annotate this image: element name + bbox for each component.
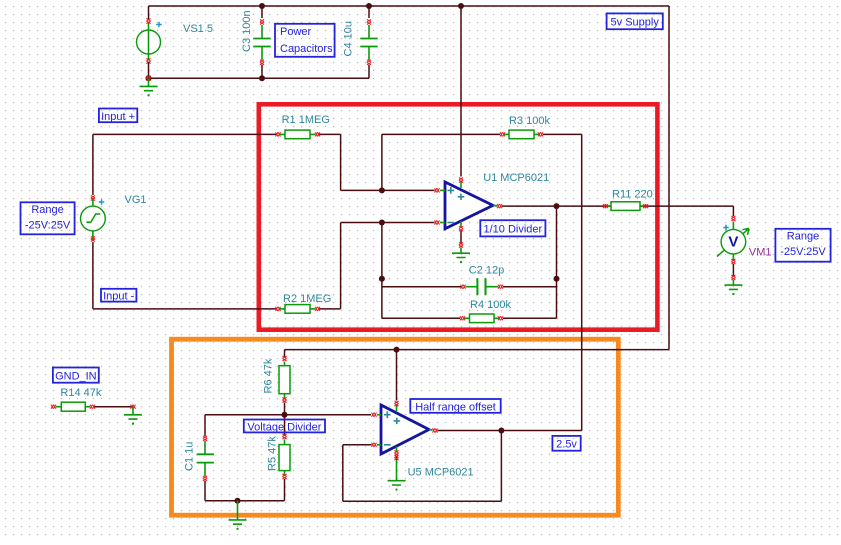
label R14 47k — [60, 387, 101, 399]
node +input junction — [379, 187, 385, 193]
svg-text:C2 12p: C2 12p — [469, 264, 504, 276]
red highlight box (difference amplifier) — [259, 104, 658, 329]
svg-text:U5 MCP6021: U5 MCP6021 — [408, 466, 474, 478]
wire VG1 top vertical — [92, 134, 94, 195]
svg-text:1/10 Divider: 1/10 Divider — [483, 224, 542, 236]
wire R14 to ground — [95, 405, 136, 415]
svg-text:Input +: Input + — [101, 111, 135, 123]
resistor R14 — [51, 402, 95, 411]
ground below VS1 — [140, 78, 158, 96]
svg-text:-25V:25V: -25V:25V — [25, 220, 71, 232]
svg-text:R5 47k: R5 47k — [267, 436, 279, 471]
label R11 220 — [612, 188, 653, 200]
ground below VM1 — [724, 285, 742, 295]
generator VG1 — [81, 196, 106, 242]
wire VG1 bottom vertical — [92, 242, 94, 309]
node divider midpoint — [282, 412, 288, 418]
node VS1 / bottom rail — [146, 75, 152, 81]
label C1 1u — [184, 442, 196, 471]
wire output feedback drop — [556, 206, 558, 318]
capacitor C4 — [360, 6, 377, 78]
wire R1 to U1 +input — [320, 134, 435, 190]
svg-text:R14 47k: R14 47k — [60, 387, 101, 399]
svg-text:C4 10u: C4 10u — [343, 21, 355, 56]
label U1 MCP6021 — [483, 172, 549, 184]
node top rail / C3 — [259, 3, 265, 9]
wire 5V rail right drop — [668, 6, 670, 350]
svg-text:Capacitors: Capacitors — [280, 43, 333, 55]
node bottom rail / ground — [235, 498, 241, 504]
op-amp U1 — [435, 178, 503, 232]
node 5V rail / U5 power branch — [394, 347, 400, 353]
label Half range offset — [410, 399, 500, 413]
svg-text:R1 1MEG: R1 1MEG — [282, 114, 330, 126]
wire divider mid to U5 +input — [285, 414, 372, 416]
wire +input branch up to R3 — [382, 134, 500, 190]
label Range -25V:25V (VM1) — [775, 229, 830, 262]
wire 5V rail bottom horizontal — [285, 349, 670, 351]
wire Input+ horizontal — [93, 133, 276, 135]
label Range -25V:25V (VG1) — [21, 202, 75, 234]
svg-text:C3 100n: C3 100n — [241, 10, 253, 52]
node output / C2 branch — [554, 276, 560, 282]
label 5v Supply — [607, 13, 663, 29]
label R4 100k — [470, 299, 511, 311]
node top rail / C4 — [366, 3, 372, 9]
svg-text:VS1 5: VS1 5 — [183, 23, 213, 35]
label C2 12p — [469, 264, 504, 276]
svg-text:R2 1MEG: R2 1MEG — [283, 293, 331, 305]
svg-text:R3 100k: R3 100k — [509, 115, 550, 127]
svg-text:R4 100k: R4 100k — [470, 299, 511, 311]
wire VS1 to ground rail — [148, 62, 150, 78]
ground below U1 — [452, 253, 470, 263]
label 1/10 Divider — [480, 220, 545, 236]
op-amp U5 — [372, 401, 438, 456]
svg-text:Range: Range — [787, 231, 819, 243]
wire U1 output — [502, 205, 733, 207]
svg-text:Power: Power — [280, 26, 312, 38]
svg-text:-25V:25V: -25V:25V — [780, 246, 826, 258]
label Power Capacitors — [275, 24, 335, 57]
wire U5 power pin — [396, 350, 398, 401]
capacitor C3 — [253, 6, 270, 78]
label Input + — [99, 109, 137, 123]
ground at R14 — [124, 415, 142, 425]
svg-text:GND_IN: GND_IN — [55, 371, 97, 383]
label C3 100n — [241, 10, 253, 52]
voltage source VS1 — [137, 6, 162, 64]
node output junction — [554, 203, 560, 209]
wire U1 ground pin — [459, 231, 463, 253]
node -input / C2 branch — [379, 276, 385, 282]
label VG1 — [125, 194, 147, 206]
svg-text:Range: Range — [31, 204, 63, 216]
svg-text:V: V — [728, 234, 738, 251]
svg-text:R6 47k: R6 47k — [263, 358, 275, 393]
node U5 output / feedback — [498, 428, 504, 434]
resistor R11 — [603, 202, 648, 211]
wire divider mid to C1 column — [205, 414, 285, 416]
label R3 100k — [509, 115, 550, 127]
wire U5 feedback loop — [343, 431, 502, 502]
capacitor C1 — [197, 415, 214, 501]
label R6 47k — [263, 358, 275, 393]
wire C2 row left — [382, 286, 461, 288]
wire U5 ground stem — [394, 455, 398, 481]
wire C2 row right — [503, 286, 557, 288]
resistor R5 — [279, 415, 290, 501]
node top rail / U1 power branch — [458, 3, 464, 9]
label VS1 5 — [183, 23, 213, 35]
svg-text:Input -: Input - — [103, 291, 135, 303]
wire Input- horizontal — [93, 308, 276, 310]
wire U1 power pin — [460, 6, 462, 177]
resistor R3 — [500, 130, 543, 139]
resistor R1 — [276, 130, 321, 139]
ground below U5 — [388, 481, 406, 491]
label Input - — [101, 289, 136, 303]
resistor R2 — [276, 305, 321, 314]
svg-text:VG1: VG1 — [125, 194, 147, 206]
wire output to voltmeter — [732, 206, 734, 216]
label U5 MCP6021 — [408, 466, 474, 478]
svg-text:C1 1u: C1 1u — [184, 442, 196, 471]
label VM1 — [749, 246, 772, 258]
label GND_IN — [53, 368, 99, 383]
wire 5V top rail — [149, 5, 670, 7]
label Voltage Divider — [244, 420, 325, 434]
capacitor C2 — [461, 278, 504, 295]
wire U5 output to 2.5v column — [438, 430, 582, 432]
resistor R4 — [460, 314, 503, 323]
svg-text:VM1: VM1 — [749, 246, 772, 258]
voltmeter VM1 — [717, 216, 749, 285]
svg-text:U1 MCP6021: U1 MCP6021 — [483, 172, 549, 184]
ground below divider — [229, 520, 247, 530]
svg-text:Voltage Divider: Voltage Divider — [247, 421, 321, 433]
wire R2 to U1 -input — [320, 223, 435, 309]
label C4 10u — [343, 21, 355, 56]
wire R3 right to 2.5v column — [543, 134, 582, 430]
label R1 1MEG — [282, 114, 330, 126]
wire R4 row right — [503, 317, 557, 319]
wire ground stem through orange box — [237, 501, 239, 520]
label R5 47k — [267, 436, 279, 471]
wire divider bottom rail — [205, 500, 285, 502]
orange highlight box (half range offset) — [172, 339, 619, 515]
svg-text:5v Supply: 5v Supply — [611, 17, 660, 29]
resistor R6 — [279, 350, 290, 415]
node C3 / bottom rail — [259, 75, 265, 81]
wire -input branch down — [381, 223, 383, 319]
label R2 1MEG — [283, 293, 331, 305]
svg-text:R11 220: R11 220 — [612, 188, 653, 200]
label 2.5v — [552, 436, 580, 451]
wire bottom rail of supply section — [149, 77, 370, 79]
node -input junction — [379, 220, 385, 226]
svg-text:Half range offset: Half range offset — [415, 401, 496, 413]
svg-text:2.5v: 2.5v — [556, 439, 577, 451]
wire R4 row left — [382, 317, 460, 319]
